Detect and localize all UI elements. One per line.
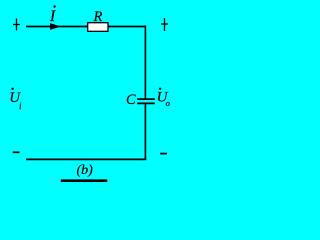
svg-text:I: I — [49, 8, 56, 25]
svg-text:R: R — [93, 9, 103, 25]
svg-text:o: o — [166, 98, 170, 108]
svg-text:C: C — [126, 92, 136, 108]
svg-text:(b): (b) — [77, 163, 94, 178]
